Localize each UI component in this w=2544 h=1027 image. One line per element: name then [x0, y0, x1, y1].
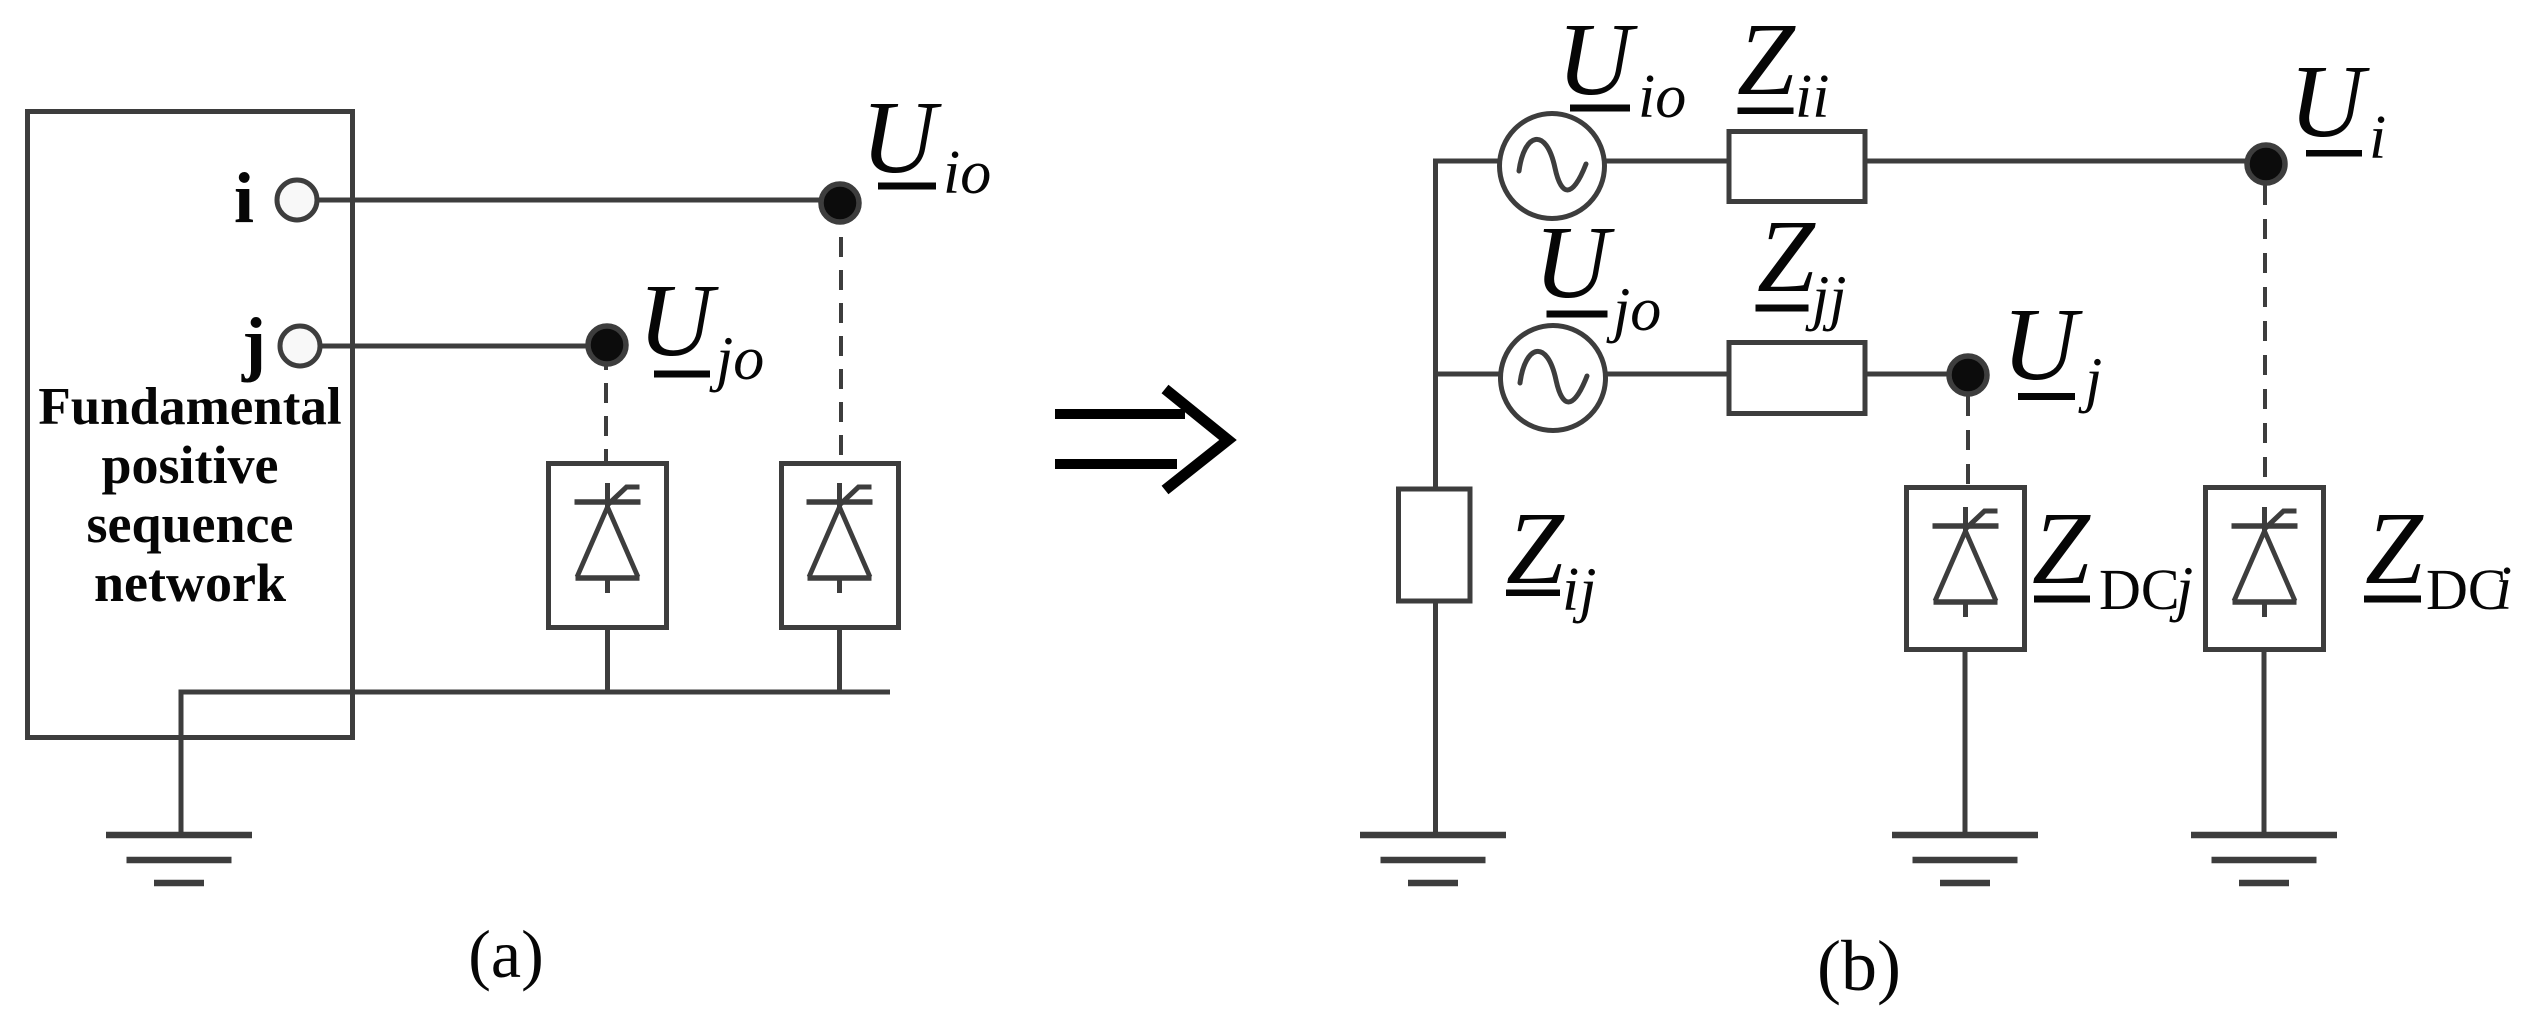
svg-text:network: network	[94, 553, 286, 613]
svg-text:jj: jj	[1805, 264, 1846, 332]
svg-text:jo: jo	[1606, 276, 1661, 344]
svg-text:ij: ij	[1562, 556, 1596, 624]
svg-text:positive: positive	[101, 435, 278, 495]
svg-text:i: i	[2495, 555, 2512, 623]
svg-text:sequence: sequence	[87, 494, 294, 554]
svg-text:i: i	[234, 158, 254, 238]
svg-text:Z: Z	[1506, 491, 1565, 606]
svg-text:Z: Z	[2032, 491, 2091, 606]
svg-text:Z: Z	[2365, 491, 2424, 606]
svg-text:i: i	[2369, 104, 2386, 172]
svg-text:Z: Z	[1757, 199, 1816, 314]
svg-text:j: j	[241, 303, 266, 383]
svg-text:io: io	[1638, 63, 1686, 131]
svg-text:io: io	[943, 139, 991, 207]
svg-text:U: U	[2002, 287, 2083, 402]
svg-text:U: U	[2289, 44, 2370, 159]
svg-text:Fundamental: Fundamental	[38, 378, 341, 436]
svg-text:(b): (b)	[1817, 926, 1901, 1006]
svg-text:ii: ii	[1795, 63, 1829, 131]
svg-text:DC: DC	[2099, 557, 2180, 622]
svg-text:Z: Z	[1737, 2, 1796, 117]
svg-text:(a): (a)	[468, 916, 543, 992]
svg-text:jo: jo	[709, 325, 764, 393]
svg-text:U: U	[1557, 2, 1638, 117]
svg-text:U: U	[861, 80, 942, 195]
svg-text:U: U	[1534, 205, 1615, 320]
svg-text:U: U	[638, 263, 719, 378]
